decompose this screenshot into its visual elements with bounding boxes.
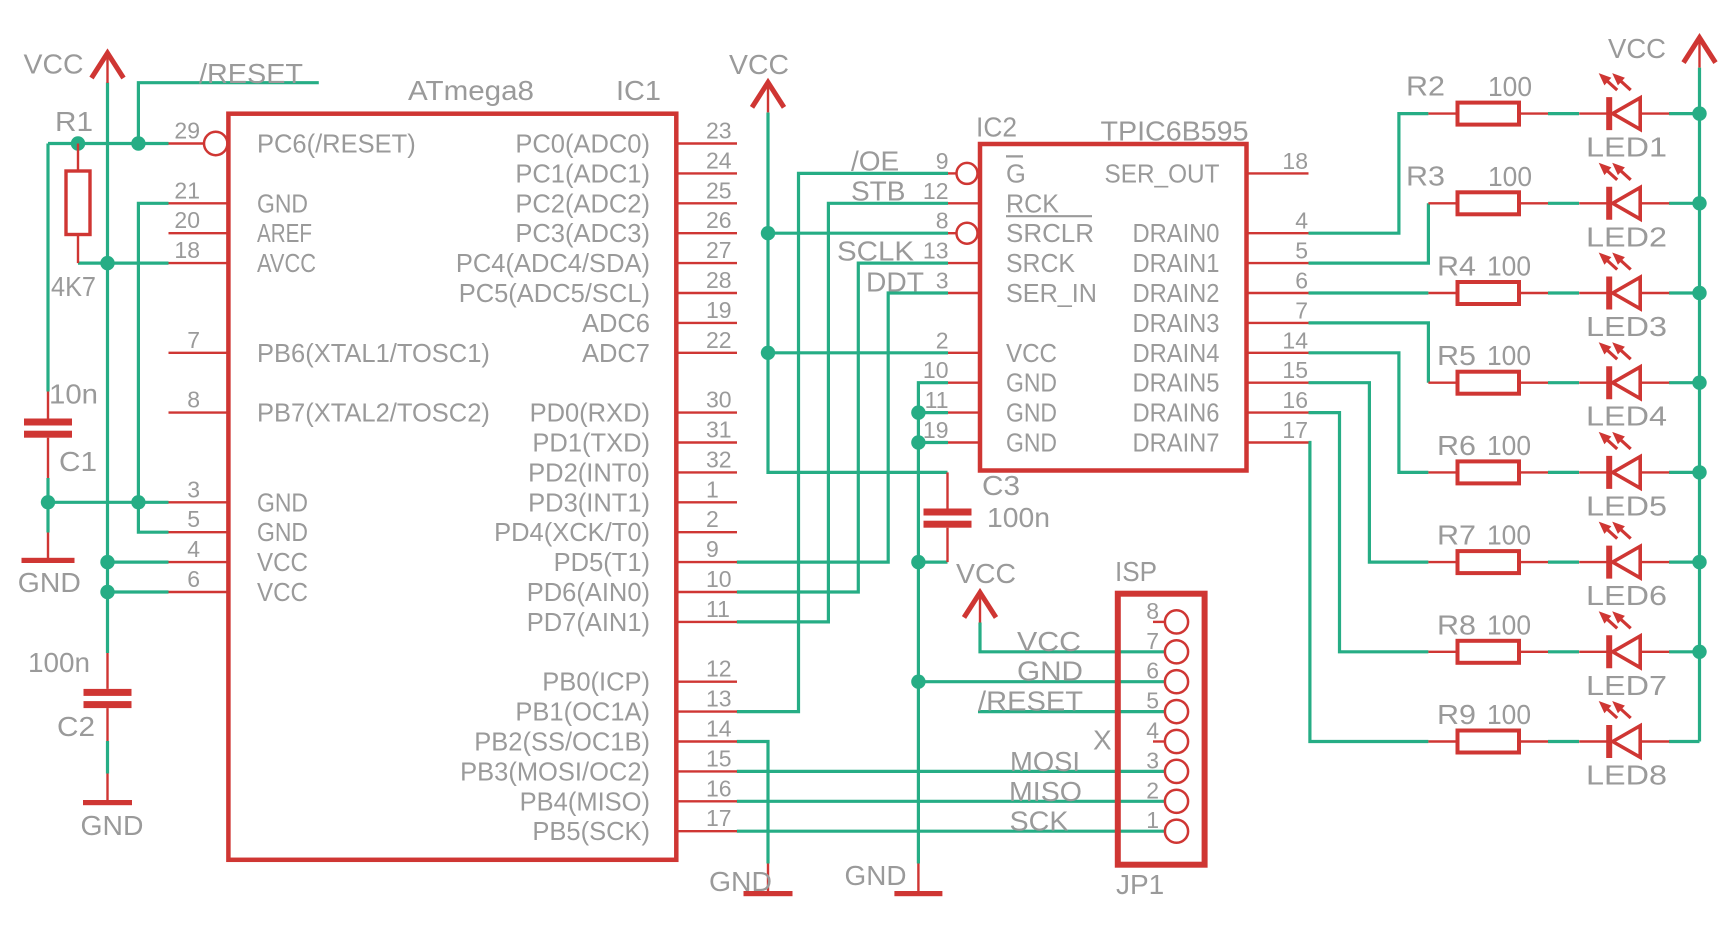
- svg-text:100n: 100n: [987, 502, 1050, 533]
- svg-text:11: 11: [706, 596, 730, 622]
- svg-text:11: 11: [925, 387, 949, 413]
- svg-text:/RESET: /RESET: [199, 58, 303, 89]
- svg-text:32: 32: [706, 446, 732, 472]
- svg-text:SRCLR: SRCLR: [1006, 220, 1094, 248]
- svg-text:DRAIN2: DRAIN2: [1133, 280, 1220, 308]
- svg-text:R7: R7: [1437, 520, 1476, 551]
- svg-text:17: 17: [706, 805, 732, 831]
- svg-text:DRAIN4: DRAIN4: [1133, 340, 1220, 368]
- svg-text:17: 17: [1282, 417, 1308, 443]
- svg-text:15: 15: [1282, 357, 1308, 383]
- svg-text:GND: GND: [1006, 400, 1057, 428]
- svg-text:SER_OUT: SER_OUT: [1105, 160, 1220, 188]
- svg-text:PD2(INT0): PD2(INT0): [528, 459, 650, 487]
- svg-text:RCK: RCK: [1006, 190, 1059, 218]
- svg-text:2: 2: [706, 506, 719, 532]
- svg-text:ADC7: ADC7: [582, 340, 650, 368]
- svg-text:PB5(SCK): PB5(SCK): [532, 818, 650, 846]
- svg-text:PB7(XTAL2/TOSC2): PB7(XTAL2/TOSC2): [257, 400, 490, 428]
- svg-text:C2: C2: [57, 711, 95, 742]
- svg-text:30: 30: [706, 387, 732, 413]
- svg-text:5: 5: [1146, 688, 1159, 714]
- svg-text:VCC: VCC: [1006, 340, 1057, 368]
- svg-text:GND: GND: [845, 860, 907, 891]
- svg-text:TPIC6B595: TPIC6B595: [1101, 116, 1249, 147]
- svg-text:AREF: AREF: [257, 220, 312, 248]
- svg-text:15: 15: [706, 745, 732, 771]
- svg-text:PB0(ICP): PB0(ICP): [542, 669, 650, 697]
- svg-text:27: 27: [706, 237, 732, 263]
- svg-text:2: 2: [936, 327, 949, 353]
- svg-text:SCLK: SCLK: [837, 235, 914, 266]
- svg-text:DRAIN6: DRAIN6: [1133, 400, 1220, 428]
- svg-text:4K7: 4K7: [51, 271, 96, 302]
- svg-text:X: X: [1093, 725, 1112, 756]
- svg-text:R9: R9: [1437, 699, 1476, 730]
- svg-text:10: 10: [923, 357, 949, 383]
- svg-text:PD4(XCK/T0): PD4(XCK/T0): [494, 519, 650, 547]
- svg-text:24: 24: [706, 147, 732, 173]
- svg-text:R5: R5: [1437, 340, 1476, 371]
- svg-text:C1: C1: [59, 446, 97, 477]
- svg-text:4: 4: [187, 536, 200, 562]
- svg-text:DRAIN3: DRAIN3: [1133, 310, 1220, 338]
- svg-text:JP1: JP1: [1116, 869, 1164, 900]
- svg-text:PC6(/RESET): PC6(/RESET): [257, 131, 416, 159]
- svg-text:6: 6: [187, 566, 200, 592]
- svg-text:8: 8: [936, 208, 949, 234]
- svg-text:R6: R6: [1437, 430, 1476, 461]
- svg-text:VCC: VCC: [24, 49, 84, 80]
- svg-text:PB4(MISO): PB4(MISO): [520, 788, 650, 816]
- svg-text:18: 18: [1282, 148, 1308, 174]
- svg-text:21: 21: [174, 177, 200, 203]
- svg-text:10: 10: [706, 566, 732, 592]
- svg-text:100: 100: [1487, 699, 1531, 730]
- svg-text:5: 5: [1295, 238, 1308, 264]
- svg-text:IC2: IC2: [976, 112, 1017, 143]
- svg-text:GND: GND: [709, 866, 772, 897]
- svg-text:4: 4: [1146, 718, 1159, 744]
- svg-text:STB: STB: [851, 176, 905, 207]
- svg-text:10n: 10n: [49, 379, 98, 410]
- svg-text:IC1: IC1: [616, 75, 661, 106]
- svg-text:GND: GND: [1006, 370, 1057, 398]
- svg-text:20: 20: [174, 207, 200, 233]
- svg-text:R4: R4: [1437, 251, 1476, 282]
- svg-text:R2: R2: [1406, 71, 1445, 102]
- svg-text:MISO: MISO: [1009, 776, 1082, 807]
- svg-text:100: 100: [1487, 340, 1531, 371]
- svg-text:VCC: VCC: [1017, 626, 1081, 657]
- svg-text:DRAIN0: DRAIN0: [1133, 220, 1220, 248]
- svg-text:28: 28: [706, 267, 732, 293]
- svg-text:3: 3: [187, 476, 200, 502]
- svg-text:8: 8: [187, 387, 200, 413]
- svg-text:PC2(ADC2): PC2(ADC2): [515, 190, 650, 218]
- svg-text:26: 26: [706, 207, 732, 233]
- svg-text:1: 1: [1146, 807, 1159, 833]
- svg-text:PC4(ADC4/SDA): PC4(ADC4/SDA): [456, 250, 650, 278]
- svg-text:16: 16: [706, 775, 732, 801]
- svg-text:LED6: LED6: [1586, 580, 1667, 611]
- svg-text:5: 5: [187, 506, 200, 532]
- svg-text:AVCC: AVCC: [257, 250, 316, 278]
- svg-text:MOSI: MOSI: [1010, 746, 1080, 777]
- svg-text:GND: GND: [1017, 656, 1083, 687]
- svg-text:GND: GND: [257, 489, 308, 517]
- svg-text:PC3(ADC3): PC3(ADC3): [515, 220, 650, 248]
- svg-text:13: 13: [706, 686, 732, 712]
- svg-text:19: 19: [923, 417, 949, 443]
- svg-text:SER_IN: SER_IN: [1006, 280, 1097, 308]
- svg-text:7: 7: [1146, 628, 1159, 654]
- svg-text:DRAIN1: DRAIN1: [1133, 250, 1220, 278]
- svg-text:PC5(ADC5/SCL): PC5(ADC5/SCL): [459, 280, 650, 308]
- svg-text:GND: GND: [81, 810, 144, 841]
- svg-text:VCC: VCC: [956, 558, 1016, 589]
- svg-text:4: 4: [1295, 208, 1308, 234]
- svg-text:PC0(ADC0): PC0(ADC0): [515, 131, 650, 159]
- svg-text:7: 7: [1295, 297, 1308, 323]
- svg-text:/OE: /OE: [851, 146, 899, 177]
- svg-text:31: 31: [706, 417, 732, 443]
- svg-text:16: 16: [1282, 387, 1308, 413]
- svg-text:22: 22: [706, 327, 732, 353]
- svg-text:PB2(SS/OC1B): PB2(SS/OC1B): [474, 729, 650, 757]
- svg-text:GND: GND: [257, 190, 308, 218]
- svg-text:R8: R8: [1437, 609, 1476, 640]
- svg-text:PB3(MOSI/OC2): PB3(MOSI/OC2): [460, 758, 650, 786]
- svg-text:DDT: DDT: [866, 266, 924, 297]
- svg-text:PD7(AIN1): PD7(AIN1): [527, 609, 650, 637]
- svg-text:PD6(AIN0): PD6(AIN0): [527, 579, 650, 607]
- svg-text:6: 6: [1146, 658, 1159, 684]
- svg-text:LED3: LED3: [1586, 311, 1667, 342]
- svg-text:PD0(RXD): PD0(RXD): [530, 400, 650, 428]
- svg-text:R3: R3: [1406, 161, 1445, 192]
- svg-text:VCC: VCC: [729, 49, 789, 80]
- svg-text:100: 100: [1488, 71, 1532, 102]
- svg-text:100: 100: [1487, 430, 1531, 461]
- svg-text:100: 100: [1487, 520, 1531, 551]
- svg-text:100n: 100n: [28, 647, 90, 678]
- svg-text:100: 100: [1487, 251, 1531, 282]
- svg-text:3: 3: [936, 268, 949, 294]
- svg-text:LED5: LED5: [1586, 490, 1667, 521]
- svg-text:VCC: VCC: [257, 579, 308, 607]
- svg-text:14: 14: [1282, 327, 1308, 353]
- svg-text:9: 9: [936, 148, 949, 174]
- svg-text:SCK: SCK: [1010, 806, 1069, 837]
- svg-text:12: 12: [923, 178, 949, 204]
- svg-text:LED7: LED7: [1586, 670, 1667, 701]
- svg-text:PB6(XTAL1/TOSC1): PB6(XTAL1/TOSC1): [257, 340, 490, 368]
- svg-text:C3: C3: [982, 470, 1020, 501]
- svg-text:29: 29: [174, 118, 200, 144]
- svg-text:GND: GND: [1006, 430, 1057, 458]
- svg-text:LED1: LED1: [1586, 132, 1667, 163]
- svg-text:PD1(TXD): PD1(TXD): [532, 430, 650, 458]
- svg-text:2: 2: [1146, 777, 1159, 803]
- svg-text:12: 12: [706, 656, 732, 682]
- svg-text:18: 18: [174, 237, 200, 263]
- svg-text:PD3(INT1): PD3(INT1): [528, 489, 650, 517]
- svg-text:1: 1: [706, 476, 719, 502]
- svg-text:G: G: [1006, 160, 1026, 188]
- svg-text:9: 9: [706, 536, 719, 562]
- svg-text:DRAIN7: DRAIN7: [1133, 430, 1220, 458]
- svg-text:GND: GND: [18, 567, 81, 598]
- svg-text:DRAIN5: DRAIN5: [1133, 370, 1220, 398]
- svg-text:6: 6: [1295, 268, 1308, 294]
- svg-text:ATmega8: ATmega8: [408, 75, 534, 106]
- svg-text:LED2: LED2: [1586, 221, 1667, 252]
- svg-text:23: 23: [706, 118, 732, 144]
- svg-text:ADC6: ADC6: [582, 310, 650, 338]
- svg-text:3: 3: [1146, 747, 1159, 773]
- svg-text:VCC: VCC: [1608, 33, 1666, 64]
- svg-text:ISP: ISP: [1115, 556, 1157, 587]
- svg-text:LED8: LED8: [1586, 760, 1667, 791]
- svg-text:VCC: VCC: [257, 549, 308, 577]
- svg-text:19: 19: [706, 297, 732, 323]
- svg-text:/RESET: /RESET: [978, 686, 1083, 717]
- svg-text:LED4: LED4: [1586, 401, 1667, 432]
- svg-text:R1: R1: [55, 106, 93, 137]
- svg-text:25: 25: [706, 177, 732, 203]
- svg-text:SRCK: SRCK: [1006, 250, 1075, 278]
- svg-text:7: 7: [187, 327, 200, 353]
- svg-text:PD5(T1): PD5(T1): [554, 549, 650, 577]
- svg-text:PC1(ADC1): PC1(ADC1): [515, 160, 650, 188]
- svg-text:PB1(OC1A): PB1(OC1A): [515, 699, 650, 727]
- svg-text:100: 100: [1487, 609, 1531, 640]
- svg-text:100: 100: [1488, 161, 1532, 192]
- svg-text:8: 8: [1146, 598, 1159, 624]
- svg-text:14: 14: [706, 716, 732, 742]
- svg-text:13: 13: [923, 238, 949, 264]
- svg-text:GND: GND: [257, 519, 308, 547]
